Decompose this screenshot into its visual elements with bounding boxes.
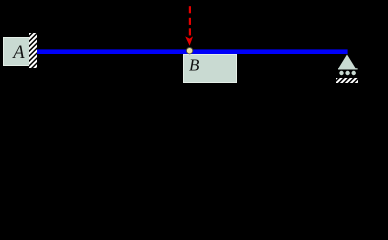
svg-text:B: B [189,55,200,74]
svg-text:A: A [11,43,25,63]
